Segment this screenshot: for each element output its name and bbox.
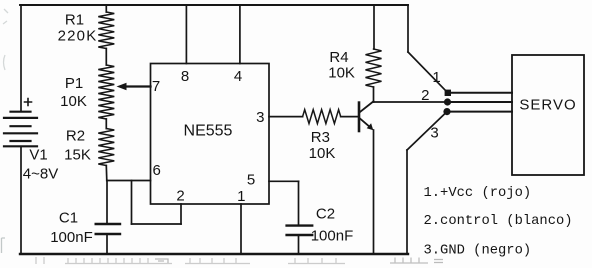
battery V1 — [4, 112, 37, 147]
svg-text:2: 2 — [176, 188, 184, 205]
svg-text:R3: R3 — [311, 129, 330, 146]
svg-text:3: 3 — [430, 125, 438, 142]
svg-text:8: 8 — [181, 68, 189, 85]
svg-text:4: 4 — [234, 68, 242, 85]
wire servo lead 2 — [448, 101, 513, 103]
svg-text:10K: 10K — [60, 93, 87, 110]
op-amp U1 NE555 body — [151, 64, 270, 205]
svg-text:1: 1 — [432, 69, 440, 86]
wire node to C1 — [106, 181, 108, 225]
wire R1-P1 — [105, 49, 107, 66]
svg-text:100nF: 100nF — [311, 228, 354, 245]
potentiometer P1 — [98, 65, 114, 119]
svg-text:2.control (blanco): 2.control (blanco) — [424, 213, 573, 229]
svg-text:15K: 15K — [64, 147, 91, 164]
wire R3 to base — [341, 116, 358, 118]
wire Vcc corner down — [407, 5, 409, 52]
resistor R1 — [98, 12, 114, 49]
wire top border (+V rail) — [20, 4, 408, 6]
svg-text:1.+Vcc (rojo): 1.+Vcc (rojo) — [424, 185, 532, 201]
P1 wiper arrowhead — [117, 83, 127, 90]
wire pin 8 — [185, 5, 187, 64]
svg-text:V1: V1 — [29, 147, 47, 164]
wire left border top (battery to rail) — [20, 5, 22, 112]
node dot 1 (+Vcc) — [445, 90, 451, 96]
wire P1 wiper to pin 7 — [125, 85, 151, 87]
wire servo lead 1 — [448, 92, 512, 94]
capacitor C2 — [287, 226, 313, 235]
svg-text:4~8V: 4~8V — [23, 166, 58, 183]
svg-text:3.GND (negro): 3.GND (negro) — [424, 243, 532, 259]
resistor R2 — [98, 129, 114, 166]
svg-text:7: 7 — [152, 78, 160, 95]
svg-text:R2: R2 — [66, 128, 85, 145]
svg-text:10K: 10K — [328, 64, 355, 81]
wire GND down — [406, 150, 408, 254]
svg-text:2: 2 — [421, 87, 429, 104]
transistor Q1 collector — [360, 101, 374, 112]
svg-text:3: 3 — [256, 109, 264, 126]
wire pin5 down to C2 — [298, 181, 300, 225]
svg-text:6: 6 — [153, 162, 161, 179]
resistor R3 — [303, 110, 341, 124]
wire C1 to ground — [106, 234, 108, 254]
wire R2 bottom to pin6 node — [105, 166, 108, 181]
wire R4 top — [373, 5, 375, 49]
wire C2 to ground — [298, 235, 300, 254]
capacitor C1 — [96, 224, 120, 234]
transistor Q1 emitter — [360, 119, 371, 129]
battery plus sign — [25, 99, 32, 106]
wire pin 4 — [239, 5, 241, 64]
node dot 2 (control) — [444, 98, 451, 105]
wire Vcc diagonal to pin1 dot — [408, 52, 448, 93]
wire P1-R2 — [105, 119, 107, 129]
wire pin 3 — [269, 116, 303, 118]
wire pin 5 — [269, 180, 299, 182]
svg-text:P1: P1 — [65, 75, 83, 92]
svg-text:10K: 10K — [309, 145, 336, 162]
svg-text:SERVO: SERVO — [519, 97, 576, 114]
servo box — [512, 55, 584, 175]
svg-text:C1: C1 — [59, 210, 78, 227]
transistor Q1 base bar — [358, 103, 361, 131]
wire control line to dot 2 — [374, 101, 448, 103]
resistor R4 — [366, 49, 382, 87]
svg-text:R1: R1 — [65, 12, 84, 29]
svg-text:1: 1 — [237, 188, 245, 205]
wire R1 top — [105, 5, 107, 12]
wire pin 1 to ground — [240, 204, 242, 254]
svg-text:NE555: NE555 — [184, 123, 233, 140]
svg-text:5: 5 — [247, 172, 255, 189]
wire pin 6 — [107, 180, 151, 182]
wire R4 bottom to collector node — [373, 87, 375, 102]
svg-text:220K: 220K — [58, 28, 98, 45]
transistor Q1 emitter arrowhead — [367, 123, 374, 130]
node dot 3 (GND) — [443, 108, 450, 115]
svg-text:100nF: 100nF — [50, 229, 93, 246]
wire emitter to ground — [373, 130, 375, 254]
wire pin 2 — [180, 204, 182, 224]
wire pin2 link down — [131, 181, 133, 225]
wire left border bottom (battery to ground) — [20, 147, 22, 255]
svg-text:C2: C2 — [316, 206, 335, 223]
wire bottom border (ground rail) — [20, 253, 408, 255]
wire servo lead 3 — [447, 111, 512, 113]
wire pin2 link across — [132, 223, 182, 225]
wire GND diagonal from dot 3 — [407, 112, 447, 150]
